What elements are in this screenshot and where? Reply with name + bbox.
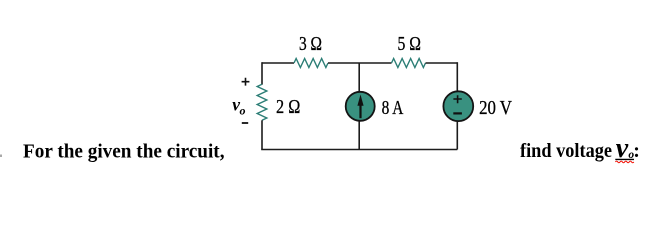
resistor 3 ohm zigzag — [294, 59, 328, 68]
wire left upper segment — [261, 62, 263, 84]
svg-text:8 A: 8 A — [382, 98, 404, 119]
wire right lower segment — [456, 121, 458, 150]
wire middle upper segment — [358, 63, 360, 92]
voltage source V1 circle — [443, 91, 473, 121]
red spellcheck squiggle below v_o — [615, 161, 633, 163]
svg-text:5 Ω: 5 Ω — [398, 34, 422, 55]
wire top-right segment — [426, 62, 458, 64]
resistor 2 ohm zigzag — [257, 84, 267, 120]
current source I1 circle — [346, 92, 375, 121]
svg-text:2 Ω: 2 Ω — [276, 97, 300, 118]
wire left lower segment — [261, 120, 263, 149]
stray mark at left edge — [0, 155, 2, 158]
wire middle lower segment — [358, 121, 360, 150]
svg-text:For the given the circuit,: For the given the circuit, — [23, 141, 225, 163]
wire right upper segment — [456, 62, 458, 92]
current source arrow — [357, 95, 363, 106]
wire bottom segment — [261, 149, 457, 151]
svg-text:o: o — [240, 104, 246, 118]
svg-text:3 Ω: 3 Ω — [299, 34, 322, 55]
polarity plus above v_o — [242, 78, 250, 86]
svg-text:20 V: 20 V — [479, 98, 512, 119]
voltage source plus sign — [453, 95, 461, 103]
svg-text::: : — [633, 140, 640, 162]
svg-text:find voltage: find voltage — [520, 140, 612, 162]
wire top-left segment — [262, 62, 294, 64]
wire top-middle segment — [328, 62, 392, 64]
resistor 5 ohm zigzag — [392, 59, 426, 68]
underline below v_o — [615, 158, 634, 160]
voltage source minus sign — [453, 112, 462, 114]
polarity minus below v_o — [242, 122, 248, 124]
